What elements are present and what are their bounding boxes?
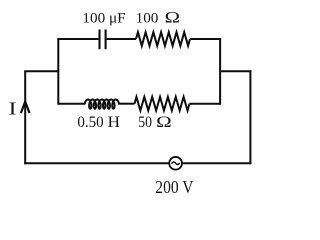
wire: right mid horizontal <box>220 70 251 72</box>
wire: left inner vertical junction <box>57 38 59 105</box>
svg-text:Ω: Ω <box>165 10 180 27</box>
svg-text:0.50: 0.50 <box>77 114 104 131</box>
wire: inductor to resistor <box>119 103 135 105</box>
wire: top branch left segment <box>57 38 98 40</box>
resistor R 50 ohm zigzag <box>135 97 190 111</box>
svg-text:100: 100 <box>136 10 159 27</box>
wire: left mid horizontal <box>24 70 58 72</box>
current arrow head <box>21 102 30 113</box>
wire: middle branch left segment <box>58 103 85 105</box>
ac source sine symbol <box>172 162 180 164</box>
svg-text:50: 50 <box>138 114 152 131</box>
wire: bottom left segment <box>24 162 169 164</box>
svg-text:Ω: Ω <box>156 114 172 131</box>
wire: capacitor to resistor <box>107 38 136 40</box>
wire: middle branch right segment <box>190 103 221 105</box>
svg-text:I: I <box>9 99 17 119</box>
wire: bottom right segment <box>182 162 252 164</box>
resistor R 100 ohm zigzag <box>136 32 190 46</box>
svg-text:H: H <box>108 114 121 131</box>
wire: left outer vertical <box>24 71 26 164</box>
capacitor 100 uF <box>100 30 106 50</box>
svg-text:100 μF: 100 μF <box>82 10 125 27</box>
svg-text:200 V: 200 V <box>155 177 194 197</box>
wire: right outer vertical <box>249 70 251 164</box>
inductor L 0.50 H coil <box>85 100 119 109</box>
ac source V1 circle <box>169 157 182 170</box>
wire: top branch right segment <box>190 38 221 40</box>
wire: right inner vertical junction <box>219 38 221 105</box>
